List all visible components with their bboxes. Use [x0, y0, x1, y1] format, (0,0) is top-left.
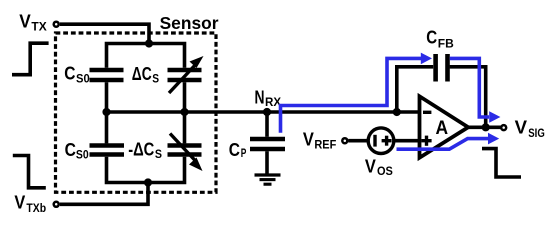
svg-text:V: V: [303, 129, 314, 149]
capacitor CFB: [433, 54, 438, 82]
svg-text:V: V: [14, 192, 25, 212]
wire blue charge path CFB to output: [450, 58, 489, 117]
junction bottom rail: [144, 178, 152, 186]
sensor dashed box: [56, 33, 217, 192]
capacitor CP: [265, 112, 269, 137]
wire VTXb feed: [60, 183, 148, 205]
waveform VSIG falling edge: [482, 149, 521, 177]
terminal VREF: [342, 138, 347, 143]
terminal VSIG: [501, 125, 506, 130]
svg-text:C: C: [426, 27, 437, 47]
svg-text:V: V: [365, 156, 376, 176]
svg-text:FB: FB: [438, 38, 454, 51]
op-amp U1: [420, 96, 469, 157]
waveform VTX rising edge: [12, 43, 49, 74]
wire branch verticals bottom row: [105, 112, 109, 143]
wire op-amp output: [467, 126, 502, 130]
terminal VTXb: [54, 202, 59, 207]
wire VOS to op-amp plus input: [394, 139, 420, 143]
svg-text:P: P: [241, 147, 247, 160]
wire bottom rail: [107, 157, 185, 183]
svg-text:A: A: [436, 118, 449, 139]
node NRX junction: [263, 108, 271, 116]
capacitor dCS top (variable): [168, 68, 202, 73]
capacitor CS0 top: [90, 68, 124, 73]
wire blue charge path NRX to CFB: [281, 58, 422, 132]
junction middle rail right: [180, 108, 188, 116]
junction feedback tap: [393, 108, 401, 116]
wire VTX to sensor top rail: [60, 24, 149, 43]
junction output: [482, 123, 490, 131]
svg-text:-ΔC: -ΔC: [128, 140, 154, 160]
junction middle rail left: [102, 108, 110, 116]
svg-text:S0: S0: [76, 73, 90, 86]
op-amp minus sign: [423, 111, 431, 114]
wire blue offset path VOS to output: [397, 139, 489, 150]
capacitor -dCS bottom (variable): [168, 143, 202, 148]
wire feedback loop: [397, 67, 486, 128]
svg-text:C: C: [65, 140, 76, 160]
junction top rail: [145, 39, 153, 47]
capacitor CS0 bottom: [90, 143, 125, 148]
wire middle rail NRX to op-amp: [107, 110, 420, 114]
svg-text:TXb: TXb: [26, 202, 46, 215]
svg-text:Sensor: Sensor: [160, 13, 219, 33]
wire VREF to VOS: [348, 139, 368, 143]
svg-text:S: S: [155, 148, 162, 161]
wire top rail: [107, 44, 185, 68]
waveform VTXb falling edge: [13, 156, 46, 188]
svg-text:V: V: [19, 12, 31, 32]
svg-text:V: V: [515, 118, 527, 138]
svg-text:C: C: [229, 140, 240, 160]
svg-text:S: S: [152, 72, 159, 85]
svg-text:SIG: SIG: [528, 127, 545, 140]
ground: [255, 173, 281, 176]
svg-text:C: C: [64, 63, 75, 83]
svg-text:TX: TX: [31, 21, 47, 34]
svg-text:ΔC: ΔC: [132, 64, 152, 84]
svg-text:OS: OS: [377, 165, 393, 178]
svg-text:N: N: [255, 87, 265, 107]
svg-text:REF: REF: [314, 139, 336, 152]
svg-text:S0: S0: [76, 148, 89, 161]
source VOS: [368, 128, 394, 154]
op-amp plus sign: [421, 139, 431, 142]
terminal VTX: [54, 22, 59, 27]
wire branch verticals top row to middle rail: [105, 82, 109, 112]
